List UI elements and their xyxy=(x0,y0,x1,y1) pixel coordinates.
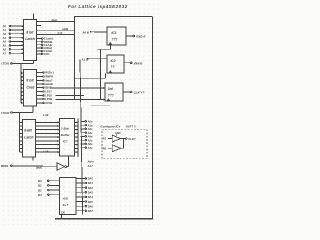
svg-text:R1: R1 xyxy=(103,137,107,141)
svg-text:??: ?? xyxy=(111,65,115,69)
svg-text:8-Bit: 8-Bit xyxy=(24,129,32,133)
svg-text:A0 B: A0 B xyxy=(82,30,89,34)
svg-text:B2: B2 xyxy=(38,188,42,192)
svg-text:A4: A4 xyxy=(3,40,7,44)
svg-text:Latch: Latch xyxy=(25,37,35,41)
svg-text:DA3: DA3 xyxy=(88,190,94,194)
svg-text:8+?: 8+? xyxy=(63,203,69,207)
svg-text:A1 B: A1 B xyxy=(81,58,88,62)
svg-text:IC?: IC? xyxy=(63,140,68,144)
svg-text:LTCH2: LTCH2 xyxy=(1,111,10,115)
svg-text:A7: A7 xyxy=(3,51,7,55)
svg-text:A4x: A4x xyxy=(88,135,93,139)
svg-text:For Lattice isp4SE2032: For Lattice isp4SE2032 xyxy=(68,4,128,9)
svg-text:Adrs: Adrs xyxy=(87,159,95,163)
svg-text:A5: A5 xyxy=(3,44,7,48)
svg-text:???: ??? xyxy=(112,38,118,42)
svg-text:LP1B: LP1B xyxy=(45,97,52,101)
svg-text:IC2: IC2 xyxy=(111,59,116,63)
svg-text:(buf): (buf) xyxy=(36,166,42,170)
svg-text:A1: A1 xyxy=(3,28,7,32)
svg-text:DA0: DA0 xyxy=(88,177,94,181)
svg-text:LP1?: LP1? xyxy=(45,90,52,94)
svg-text:3-Stat: 3-Stat xyxy=(61,126,70,130)
svg-text:CP1B: CP1B xyxy=(45,101,52,105)
svg-text:/RW*8: /RW*8 xyxy=(45,75,53,79)
svg-text:A/S: A/S xyxy=(62,197,69,201)
svg-text:Latch: Latch xyxy=(24,136,33,140)
svg-text:3rd: 3rd xyxy=(108,87,113,91)
svg-text:setB: setB xyxy=(62,27,68,31)
svg-text:A3: A3 xyxy=(3,36,7,40)
svg-text:/RW*B: /RW*B xyxy=(133,61,143,65)
svg-text:A1x: A1x xyxy=(88,123,93,127)
svg-text:RXD+F: RXD+F xyxy=(136,35,146,39)
svg-text:LP18: LP18 xyxy=(45,94,52,98)
svg-text:A2: A2 xyxy=(3,32,7,36)
svg-text:Cmd: Cmd xyxy=(26,86,35,90)
svg-text:MRD1: MRD1 xyxy=(1,164,9,168)
svg-text:Configure ICs: Configure ICs xyxy=(101,124,121,128)
svg-text:DA1: DA1 xyxy=(88,181,94,185)
svg-text:DA6: DA6 xyxy=(88,204,94,208)
svg-text:A0x: A0x xyxy=(88,120,93,124)
svg-text:IC1: IC1 xyxy=(112,31,117,35)
svg-text:DA4: DA4 xyxy=(88,195,94,199)
svg-text:OUT? ?:: OUT? ?: xyxy=(126,124,137,128)
svg-text:CLK?: CLK? xyxy=(128,137,136,141)
svg-text:A5x: A5x xyxy=(88,138,93,142)
svg-text:RXD+1: RXD+1 xyxy=(45,71,54,75)
svg-text:A6: A6 xyxy=(3,48,7,52)
svg-text:A7x: A7x xyxy=(88,146,93,150)
svg-text:A2x: A2x xyxy=(88,127,93,131)
svg-text:???: ??? xyxy=(108,94,114,98)
svg-text:B3: B3 xyxy=(38,193,42,197)
svg-text:R2: R2 xyxy=(103,146,107,150)
svg-text:A1?: A1? xyxy=(87,164,94,168)
svg-text:B1: B1 xyxy=(38,184,42,188)
svg-text:DA2: DA2 xyxy=(88,186,94,190)
svg-text:8 bit: 8 bit xyxy=(26,79,34,83)
svg-text:LTCH1: LTCH1 xyxy=(1,62,10,66)
svg-text:A6x: A6x xyxy=(88,142,93,146)
svg-text:DA5: DA5 xyxy=(88,200,94,204)
svg-text:Run: Run xyxy=(52,18,58,22)
svg-text:DA7: DA7 xyxy=(88,209,94,213)
svg-text:AND: AND xyxy=(114,131,121,135)
svg-text:8 bit: 8 bit xyxy=(26,31,34,35)
svg-text:CK: CK xyxy=(61,210,66,214)
svg-text:A0: A0 xyxy=(3,24,7,28)
svg-text:LA8: LA8 xyxy=(43,149,49,153)
svg-text:B0: B0 xyxy=(38,179,42,183)
svg-text:LDC: LDC xyxy=(44,52,50,56)
svg-text:dataB: dataB xyxy=(45,82,53,86)
svg-text:Buffer: Buffer xyxy=(61,133,71,137)
svg-text:A3x: A3x xyxy=(88,131,93,135)
svg-text:CLK*Y?: CLK*Y? xyxy=(134,91,145,95)
svg-text:LA9: LA9 xyxy=(43,113,49,117)
svg-text:data?: data? xyxy=(45,79,53,83)
